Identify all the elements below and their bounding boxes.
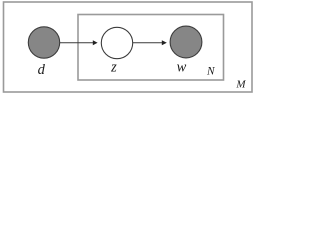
svg-text:N: N [206, 66, 216, 78]
svg-text:d: d [38, 62, 46, 78]
outer plate M [4, 2, 253, 92]
svg-text:z: z [110, 59, 117, 75]
inner plate N [78, 15, 224, 81]
node d (shaded) [28, 27, 59, 58]
node w (shaded) [170, 26, 202, 58]
wire d to z [59, 42, 94, 44]
svg-text:M: M [235, 78, 246, 90]
node z (latent) [101, 27, 132, 58]
svg-text:w: w [177, 60, 187, 76]
wire z to w [133, 42, 162, 44]
arrowhead into w [162, 40, 167, 45]
arrowhead into z [93, 40, 98, 45]
